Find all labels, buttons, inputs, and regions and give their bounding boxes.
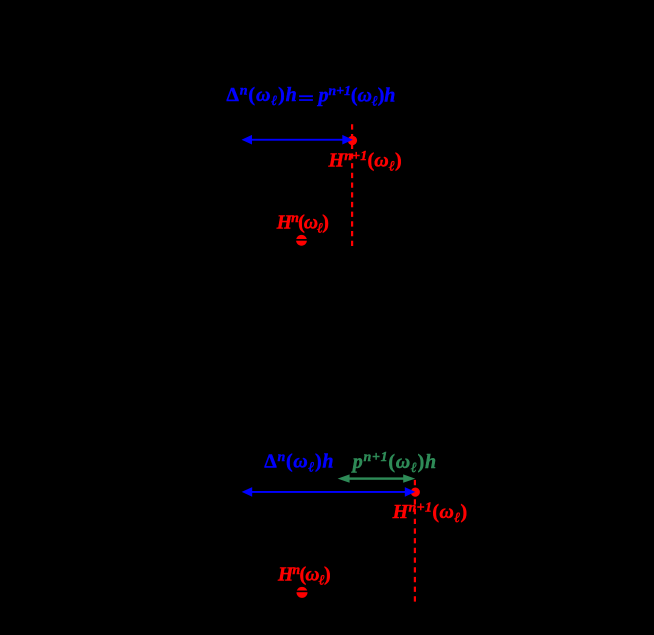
arrow: green double-headed arrow (bottom) <box>338 474 416 482</box>
label: equals sign (blue, drawn as two bars) <box>299 95 313 97</box>
arrow: blue double-headed arrow (top) <box>242 135 353 145</box>
node: red dot at H^{n+1} sample (top) <box>348 136 357 145</box>
wire: black curve crossing the dot (bottom) <box>294 591 310 593</box>
wire: red dashed vertical line (bottom) <box>414 480 416 602</box>
wire: red dashed vertical line (top) <box>351 124 353 247</box>
svg-text:Δn(ωℓ)h: Δn(ωℓ)h <box>264 450 334 476</box>
svg-text:Δn(ωℓ)h: Δn(ωℓ)h <box>226 84 297 110</box>
node: red dot below H^n (top) <box>296 235 307 246</box>
wire: black curve crossing the dot (top) <box>294 239 310 241</box>
svg-text:pn+1(ωℓ)h: pn+1(ωℓ)h <box>317 84 396 110</box>
node: red dot at H^{n+1} sample (bottom) <box>411 488 420 497</box>
arrow: blue double-headed arrow (bottom) <box>242 487 416 497</box>
node: red dot below H^n (bottom) <box>297 587 308 598</box>
